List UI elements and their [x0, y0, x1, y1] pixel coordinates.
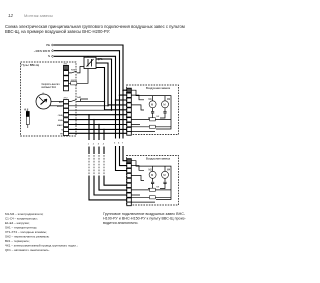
- svg-text:12: 12: [8, 13, 14, 18]
- svg-text:Групповое подключение воздушны: Групповое подключение воздушных завес ВН…: [103, 212, 186, 216]
- svg-text:ОБЩ: ОБЩ: [58, 115, 63, 117]
- svg-text:SK: SK: [156, 116, 159, 118]
- svg-text:ХТ1-ХТ4 – холодные клеммы;: ХТ1-ХТ4 – холодные клеммы;: [5, 230, 47, 234]
- svg-text:М1-М4 – электродвигатели;: М1-М4 – электродвигатели;: [5, 212, 44, 216]
- svg-text:M2: M2: [167, 99, 171, 101]
- svg-text:5: 5: [114, 143, 116, 145]
- svg-text:6: 6: [118, 143, 120, 145]
- svg-text:ВКЛ: ВКЛ: [59, 102, 64, 104]
- svg-text:QF1: QF1: [98, 57, 104, 61]
- svg-text:~3Ф/N 380 В: ~3Ф/N 380 В: [34, 49, 50, 53]
- svg-text:вкл/выкл SA1: вкл/выкл SA1: [42, 86, 57, 89]
- svg-text:Н100-РУ и ВНС-Н150-РУ к пульту: Н100-РУ и ВНС-Н150-РУ к пульту ВВС-Щ про…: [103, 217, 186, 221]
- svg-text:PE: PE: [60, 134, 63, 136]
- svg-text:Пульт ВВС-Щ: Пульт ВВС-Щ: [22, 63, 40, 67]
- svg-text:водится аналогично.: водится аналогично.: [103, 221, 138, 225]
- svg-text:M1: M1: [149, 99, 153, 101]
- svg-text:Воздушная завеса: Воздушная завеса: [146, 86, 171, 90]
- svg-text:M: M: [151, 102, 153, 106]
- svg-text:2: 2: [93, 143, 95, 145]
- svg-text:M: M: [151, 173, 153, 177]
- svg-text:ВК1 – термореле;: ВК1 – термореле;: [5, 239, 30, 243]
- svg-text:KM1: KM1: [71, 69, 76, 71]
- svg-text:Скорость вентил.: Скорость вентил.: [42, 84, 61, 86]
- svg-text:Е1-Е4 – нагрузки;: Е1-Е4 – нагрузки;: [5, 221, 30, 225]
- svg-text:N: N: [48, 54, 50, 58]
- svg-text:HL: HL: [24, 110, 28, 112]
- svg-text:M: M: [163, 102, 165, 106]
- svg-text:ВЫКЛ: ВЫКЛ: [57, 106, 64, 108]
- svg-text:PE: PE: [46, 43, 50, 47]
- svg-text:Воздушная завеса: Воздушная завеса: [146, 157, 171, 161]
- svg-text:Монтаж завесы: Монтаж завесы: [24, 13, 53, 18]
- svg-text:M3: M3: [149, 169, 153, 171]
- svg-text:1: 1: [88, 143, 90, 145]
- svg-text:ЧК1 – электромонтажный провод: ЧК1 – электромонтажный провод группового…: [5, 244, 78, 248]
- svg-text:МИН: МИН: [58, 120, 63, 122]
- svg-text:МАКС: МАКС: [57, 124, 64, 127]
- svg-text:4: 4: [103, 143, 105, 145]
- svg-text:QF1 – автоматич. выключатель.: QF1 – автоматич. выключатель.: [5, 248, 50, 252]
- svg-text:SA2 – переключатель режимов;: SA2 – переключатель режимов;: [5, 235, 49, 239]
- svg-text:M: M: [163, 173, 165, 177]
- svg-text:SK: SK: [156, 187, 159, 189]
- svg-text:С1-С4 – конденсаторы;: С1-С4 – конденсаторы;: [5, 217, 38, 221]
- svg-text:ВВС-Щ, на примере воздушной за: ВВС-Щ, на примере воздушной завесы ВНС-Н…: [5, 29, 110, 34]
- svg-text:7: 7: [122, 143, 124, 145]
- svg-text:SA2: SA2: [77, 96, 82, 99]
- svg-text:SA1 – терморегулятор;: SA1 – терморегулятор;: [5, 226, 37, 230]
- svg-text:M4: M4: [167, 169, 171, 171]
- svg-text:3: 3: [98, 143, 100, 145]
